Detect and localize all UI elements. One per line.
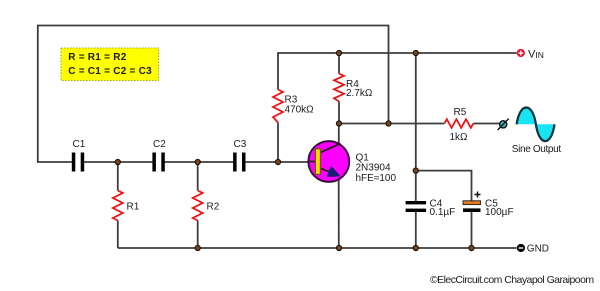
node feedback/collector rail [386,121,391,126]
node collector/R4 [336,121,341,126]
wire R4 top lead [338,53,340,74]
svg-text:VIN: VIN [528,49,544,61]
node C4 branch on VIN rail [413,50,418,55]
svg-text:C1: C1 [73,139,86,150]
node C3/R3/base [275,159,280,164]
svg-text:hFE≈100: hFE≈100 [356,173,397,184]
svg-text:R = R1 = R2: R = R1 = R2 [68,52,127,63]
wire R1 top lead [117,162,119,191]
wire VIN rail to C4 branch [415,53,417,201]
svg-text:C3: C3 [234,139,247,150]
svg-text:©ElecCircuit.com Chayapol Gara: ©ElecCircuit.com Chayapol Garaipoom [430,274,594,286]
wire C2 to C3 [164,161,233,163]
resistor R5 [444,119,473,128]
resistor R2 [193,191,203,221]
node C2/R2 [195,159,200,164]
svg-text:0.1µF: 0.1µF [430,207,456,218]
svg-text:C2: C2 [153,139,166,150]
svg-text:R1: R1 [127,202,140,213]
resistor R4 [334,74,344,102]
wire C4 bottom lead [415,212,417,248]
node C5 ground [469,245,474,250]
capacitor C3 [233,153,245,172]
wire R5 to output terminal [473,123,499,125]
wire ladder input to C1 [37,161,72,163]
wire C5 bottom lead [471,212,473,248]
node R2 ground [195,245,200,250]
svg-text:GND: GND [527,244,549,255]
svg-text:C = C1 = C2 = C3: C = C1 = C2 = C3 [68,66,152,77]
svg-text:470kΩ: 470kΩ [285,105,315,116]
capacitor C2 [152,153,164,172]
wire C4 node to C5 top [416,171,472,201]
capacitor C4 [406,201,427,212]
wire R1 bottom lead [117,221,119,249]
node C1/R1 [115,159,120,164]
svg-text:R5: R5 [454,107,467,118]
wire C3 to base node [245,161,316,163]
node emitter ground [336,245,341,250]
wire feedback loop (collector to RC input) [38,26,389,163]
capacitor C1 [72,153,84,172]
node C4 ground [413,245,418,250]
wire Q1 emitter lead [338,175,340,248]
resistor R3 [273,90,283,123]
wire R2 top lead [197,162,199,191]
svg-text:2.7kΩ: 2.7kΩ [346,88,373,99]
node R4 top on VIN rail [336,50,341,55]
icon sine wave [517,108,555,142]
transistor Q1 2N3904 [308,141,349,182]
wire ground rail [118,247,517,249]
resistor R1 [113,191,123,221]
wire R3 bottom lead [277,123,279,163]
node junction dots [115,50,474,250]
capacitor C5 electrolytic [463,192,481,213]
note box R and C equality [61,48,159,81]
wire R3 top lead and VIN rail [278,53,517,90]
svg-text:Sine Output: Sine Output [512,144,562,155]
svg-text:100µF: 100µF [485,207,514,218]
wire R2 bottom lead [197,221,199,249]
terminal sine output [498,119,509,130]
wire collector rail to R5 [339,123,444,125]
terminal GND [517,244,525,252]
wire R4 bottom lead [338,102,340,124]
terminal VIN [517,49,525,57]
svg-text:R2: R2 [207,202,220,213]
wire Q1 collector lead [338,124,340,146]
svg-text:1kΩ: 1kΩ [450,132,469,143]
wire C1 to C2 [84,161,152,163]
node C4/C5 top [413,168,418,173]
